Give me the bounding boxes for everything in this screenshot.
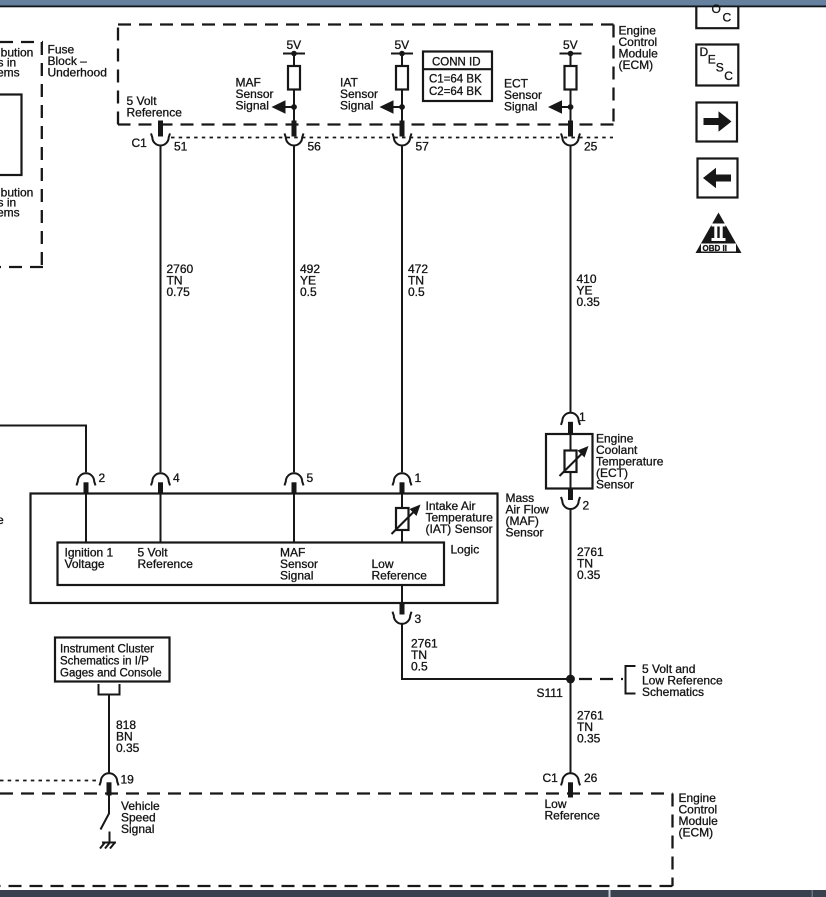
wire 2760 TN 0.75 (pin 51 to MAF pin 4) [160,146,162,472]
svg-text:e: e [0,513,4,527]
svg-text:CONN ID: CONN ID [432,57,481,69]
label Low Reference (bottom) [545,797,601,823]
wire 472 TN 0.5 (pin 57 to MAF pin 1) [401,146,403,472]
svg-text:26: 26 [584,771,598,785]
svg-text:4: 4 [173,471,180,485]
signal tap junction dot [399,104,405,110]
svg-text:5V: 5V [287,38,302,52]
svg-text:2: 2 [99,471,106,485]
wire ignition 1 voltage from fuse block [0,426,86,473]
wire 2761 TN 0.5 (MAF pin 3 to S111) [402,625,571,680]
ECM pin 56 stub [292,121,297,137]
label Mass Air Flow (MAF) Sensor [506,491,550,540]
svg-text:0.5: 0.5 [408,285,425,299]
label Low Reference (logic) [372,557,428,583]
svg-text:ems: ems [0,206,20,220]
instrument cluster reference box [55,638,170,682]
svg-text:Signal: Signal [121,822,154,836]
bottom status bar [0,890,826,897]
label 5 Volt Reference (inside ECM) [127,94,183,120]
wire 2761 TN 0.35 (S111 to ECM pin 26) [570,679,572,773]
resistor (pull-up, IAT signal) [396,66,408,90]
label Engine Control Module (ECM) bottom [679,791,719,840]
svg-text:S: S [716,61,724,75]
wire resistor to pin 56 [293,90,295,121]
splice S111 junction dot [566,675,575,684]
wire 818 BN 0.35 [108,695,110,773]
label Engine Coolant Temperature (ECT) Sensor [596,432,664,492]
ECM pin 19 stub [107,782,112,795]
svg-text:Sensor: Sensor [506,526,544,540]
connector MAF pin 1 [393,471,422,485]
connector MAF pin 5 [285,471,314,485]
signal arrow (MAF sensor signal) [272,100,295,113]
svg-text:C: C [723,11,732,25]
svg-text:0.5: 0.5 [411,660,428,674]
bracket for note [626,666,636,694]
svg-text:Signal: Signal [280,569,313,583]
connector C1 terminal 25 [561,133,598,153]
svg-text:51: 51 [174,140,188,154]
svg-text:5V: 5V [563,38,578,52]
vehicle speed signal switch [101,796,110,830]
label Vehicle Speed Signal [121,799,160,836]
svg-text:3: 3 [415,612,422,626]
svg-text:57: 57 [416,140,430,154]
svg-text:O: O [712,2,721,16]
svg-text:0.35: 0.35 [577,568,601,582]
connector MAF pin 3 [393,612,422,626]
ECT sensor box [546,434,593,489]
svg-text:Reference: Reference [545,809,601,823]
resistor (pull-up, ECT signal) [565,66,577,90]
svg-text:Reference: Reference [138,557,194,571]
wire 2761 TN 0.35 (ECT to S111) [570,510,572,679]
svg-text:Underhood: Underhood [48,66,107,80]
signal arrow (IAT sensor signal) [380,100,403,113]
svg-text:C: C [724,69,733,83]
svg-text:C1: C1 [132,136,148,150]
5V supply node (IAT pull-up) [391,38,413,66]
MAF pin 3 stub [400,603,405,615]
5V supply node (ECT pull-up) [560,38,582,66]
label Engine Control Module (ECM) top right [619,24,659,73]
svg-text:C2=64 BK: C2=64 BK [429,86,482,98]
svg-text:Reference: Reference [127,106,183,120]
signal arrow (ECT sensor signal) [548,100,571,113]
connector C1 terminal 56 [285,133,322,153]
connector C1 dotted line (top) [171,137,613,139]
svg-text:S111: S111 [537,686,564,700]
connector terminal 19 [100,773,135,787]
svg-text:C1: C1 [543,771,559,785]
svg-text:C1=64 BK: C1=64 BK [429,74,482,86]
5V supply node (MAF pull-up) [283,38,305,66]
svg-text:Schematics in I/P: Schematics in I/P [60,656,149,668]
fuse element box (cut at left edge) [0,95,22,176]
label IAT Sensor Signal [340,76,378,113]
ECM module dashed outline (top) [118,25,614,125]
label 5 Volt and Low Reference Schematics [642,662,723,699]
svg-text:(ECM): (ECM) [679,826,714,840]
connector MAF pin 4 [151,471,180,485]
label Ignition 1 Voltage [65,546,114,572]
MAF sensor outer box [31,494,498,604]
svg-text:Voltage: Voltage [65,557,105,571]
off-page bracket [99,684,120,695]
ground (chassis) [100,832,116,849]
ECM pin 26 stub [568,782,573,797]
icon button forward arrow [697,103,738,142]
partial text: schematics reference (cut at left edge) [0,46,33,80]
resistor (pull-up, MAF signal) [288,66,300,90]
svg-text:5V: 5V [395,38,410,52]
svg-text:(ECM): (ECM) [619,58,654,72]
label MAF Sensor Signal (logic) [280,546,318,583]
svg-text:0.35: 0.35 [577,732,601,746]
icon button DESC [696,45,738,86]
fuse block underhood dashed boundary [0,42,43,267]
ECM pin 25 stub [568,121,573,137]
signal tap junction dot [291,104,297,110]
svg-text:56: 56 [308,140,322,154]
thermistor element [565,451,577,473]
svg-text:Signal: Signal [340,99,373,113]
icon OBD II triangle [696,213,742,254]
wire 410 YE 0.35 (pin 25 to ECT pin 1) [570,146,572,412]
svg-text:5: 5 [307,471,314,485]
wire resistor to pin 25 [570,90,572,121]
ECM pin 57 stub [400,121,405,137]
label 5 Volt Reference (logic) [138,546,194,572]
svg-text:Logic: Logic [451,543,480,557]
ECT pin 1 stub [568,422,573,435]
connector MAF pin 2 [77,471,106,485]
svg-text:Reference: Reference [372,569,428,583]
MAF pin 2 stub [84,482,89,494]
MAF pin 1 stub [400,482,405,494]
MAF pin 5 stub [292,482,297,494]
IAT thermistor internal wire [401,494,403,604]
svg-text:19: 19 [121,773,135,787]
svg-text:0.5: 0.5 [300,285,317,299]
svg-text:(IAT) Sensor: (IAT) Sensor [426,522,493,536]
svg-text:Signal: Signal [504,100,537,114]
svg-text:2: 2 [583,499,590,513]
svg-text:Sensor: Sensor [596,478,634,492]
svg-text:1: 1 [579,410,586,424]
svg-text:Gages and Console: Gages and Console [60,668,162,680]
wire 492 YE 0.5 (pin 56 to MAF pin 5) [293,146,295,472]
svg-text:Signal: Signal [236,99,269,113]
icon button back arrow [698,159,738,198]
status bar divider [609,890,611,897]
ECM module dashed outline (bottom) [0,794,673,887]
svg-text:Schematics: Schematics [642,685,704,699]
ECM pin 51 stub [158,121,163,137]
partial text: schematics reference 2 (cut at left edge) [0,186,33,220]
CONN ID table [423,52,492,102]
label MAF Sensor Signal [236,76,274,113]
svg-text:OBD II: OBD II [703,244,727,253]
MAF pin 4 stub [158,482,163,494]
connector ECT pin 2 [561,497,590,513]
svg-text:25: 25 [584,140,598,154]
connector C1 terminal 26 [543,771,598,785]
ECT pin 2 stub [568,489,573,501]
connector C1 dotted line (bottom left) [0,780,99,782]
MAF logic block [58,543,445,586]
svg-text:Instrument Cluster: Instrument Cluster [60,644,154,656]
IAT thermistor element [392,505,421,535]
connector ECT pin 1 [561,410,586,425]
svg-text:1: 1 [415,471,422,485]
label Intake Air Temperature (IAT) Sensor [426,499,494,536]
svg-text:0.75: 0.75 [167,285,191,299]
svg-text:0.35: 0.35 [116,741,140,755]
icon button LOC (cut off at top) [696,2,738,28]
signal tap junction dot [568,104,574,110]
svg-text:E: E [708,53,716,67]
connector C1 terminal 51 [151,133,188,153]
internal wires to logic block [86,494,294,543]
top title bar [0,0,826,6]
wire resistor to pin 57 [401,90,403,121]
svg-text:ems: ems [0,66,20,80]
label ECT Sensor Signal [504,77,542,114]
svg-text:0.35: 0.35 [577,295,601,309]
dashed reference branch to schematic note [579,678,623,680]
connector C1 terminal 57 [393,133,430,153]
